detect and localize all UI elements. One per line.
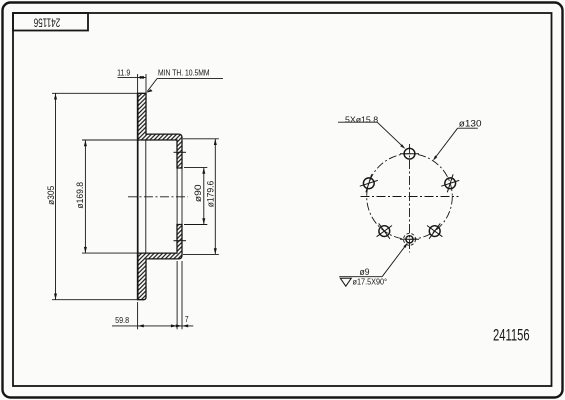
leader ø130 <box>458 127 478 129</box>
title box <box>13 13 88 31</box>
svg-text:7: 7 <box>185 314 189 324</box>
countersink symbol <box>340 278 351 286</box>
svg-text:241156: 241156 <box>493 326 530 345</box>
svg-text:59.8: 59.8 <box>115 315 129 325</box>
locating hole ø9 bottom (with ø17.5 countersink dashed) <box>400 233 419 245</box>
section top half (disc ring + hat wall + mounting flange) hatched <box>138 93 182 168</box>
section bottom half hatched <box>138 225 182 300</box>
dimension ø179.6 <box>183 139 219 255</box>
bolt hole upper-left <box>360 174 378 192</box>
svg-text:11.9: 11.9 <box>117 68 130 78</box>
dimension ø305 <box>52 93 138 299</box>
dimension ø90 <box>184 168 207 225</box>
svg-text:ø169.8: ø169.8 <box>75 182 85 209</box>
svg-text:ø9: ø9 <box>360 267 370 277</box>
leader MIN TH. 10.5MM <box>157 78 223 80</box>
dimension ø169.8 <box>82 140 138 253</box>
dimension 59.8 and 7 <box>112 261 193 329</box>
leader 5Xø15.8 <box>338 121 377 123</box>
centerline left view <box>128 196 188 198</box>
svg-text:ø130: ø130 <box>459 119 482 129</box>
disc outer face line (left, thick) <box>137 93 139 299</box>
svg-text:ø17.5X90°: ø17.5X90° <box>353 277 388 287</box>
bolt hole axis tick top (section) <box>174 151 187 153</box>
svg-text:241156: 241156 <box>33 15 60 28</box>
bolt hole lower-right <box>427 223 442 238</box>
bolt hole upper-right <box>441 174 459 192</box>
leader ø9 / countersink <box>339 276 382 278</box>
disc inner face silhouette line <box>145 140 147 253</box>
bolt hole axis tick bottom (section) <box>174 240 187 242</box>
bolt hole lower-left <box>377 223 392 238</box>
main vertical centerline <box>409 144 411 253</box>
svg-text:ø90: ø90 <box>193 184 203 202</box>
bore / 7mm extension verticals <box>176 167 178 224</box>
main horizontal centerline <box>361 196 459 198</box>
dimension 11.9 <box>118 74 147 93</box>
bolt hole top <box>400 148 419 159</box>
svg-text:ø305: ø305 <box>45 186 56 205</box>
svg-text:5Xø15.8: 5Xø15.8 <box>345 114 378 124</box>
bolt circle ø130 (dash-dot) <box>367 154 453 240</box>
svg-text:MIN TH. 10.5MM: MIN TH. 10.5MM <box>158 68 210 78</box>
svg-text:ø179.6: ø179.6 <box>205 181 215 208</box>
